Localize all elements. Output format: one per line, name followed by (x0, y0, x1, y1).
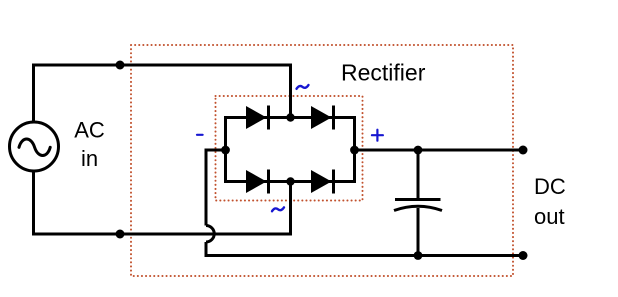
svg-text:DC: DC (534, 174, 566, 199)
svg-text:out: out (534, 204, 565, 229)
svg-text:AC: AC (74, 118, 105, 143)
svg-text:in: in (81, 146, 98, 171)
svg-text:Rectifier: Rectifier (341, 60, 426, 86)
